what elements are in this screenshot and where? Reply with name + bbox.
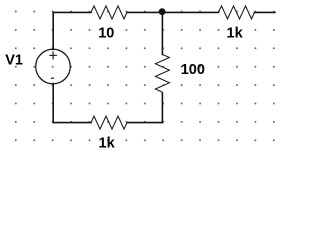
svg-text:100: 100	[181, 62, 205, 78]
svg-text:1k: 1k	[227, 25, 244, 41]
svg-text:10: 10	[98, 25, 114, 41]
svg-text:V1: V1	[5, 52, 23, 68]
svg-text:1k: 1k	[99, 136, 116, 152]
